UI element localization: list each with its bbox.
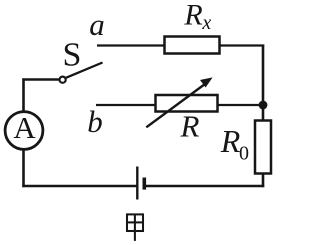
label 甲 (jiǎ) drawn strokes [127,214,143,241]
wire: right vertical upper (through junction) [262,45,265,122]
resistor R0 box [255,121,271,174]
svg-text:b: b [87,104,103,139]
node junction dot [259,101,268,110]
switch S pivot circle [60,77,66,83]
svg-text:R: R [180,108,200,143]
battery long plate [136,167,138,200]
resistor Rx box [165,37,220,54]
svg-text:a: a [89,7,105,42]
wire: left vertical lower [22,149,25,187]
wire: left vertical upper [22,78,25,112]
wire: switch feed horizontal [22,78,58,80]
wire: bottom right segment [146,185,264,187]
ammeter A circle [5,112,43,150]
svg-text:S: S [63,37,82,74]
wire: a-branch left [97,44,166,46]
svg-text:R: R [183,0,202,32]
battery short plate [143,178,147,190]
wire: b-branch right [217,104,263,106]
svg-text:R: R [220,123,241,159]
rheostat arrow [146,84,205,128]
rheostat R box [156,95,218,112]
svg-text:A: A [13,110,36,145]
switch S arm [66,63,103,78]
svg-text:x: x [201,12,211,34]
svg-text:0: 0 [239,143,249,165]
wire: a-branch right [219,44,265,46]
wire: right vertical lower (R0 to bottom) [262,173,265,188]
wire: b-branch left [96,104,157,106]
wire: bottom left segment [22,185,136,187]
